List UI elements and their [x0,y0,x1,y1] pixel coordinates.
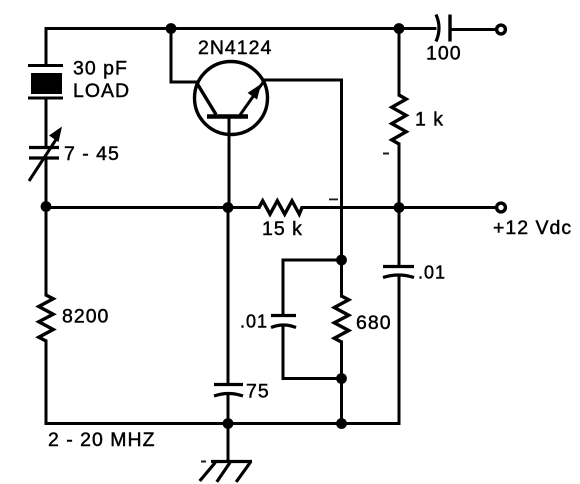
svg-text:2N4124: 2N4124 [198,37,272,59]
svg-text:1 k: 1 k [415,109,444,131]
svg-text:LOAD: LOAD [73,80,130,102]
svg-text:.01: .01 [418,263,446,283]
svg-text:7 - 45: 7 - 45 [64,143,120,165]
svg-text:75: 75 [246,381,270,403]
svg-text:+12 Vdc: +12 Vdc [493,217,572,239]
svg-text:680: 680 [356,312,392,334]
svg-text:.01: .01 [240,312,268,332]
svg-text:30 pF: 30 pF [73,58,128,80]
svg-text:8200: 8200 [62,306,109,328]
svg-text:15 k: 15 k [262,218,303,240]
svg-text:100: 100 [426,43,462,65]
svg-text:2 - 20 MHZ: 2 - 20 MHZ [48,429,156,451]
